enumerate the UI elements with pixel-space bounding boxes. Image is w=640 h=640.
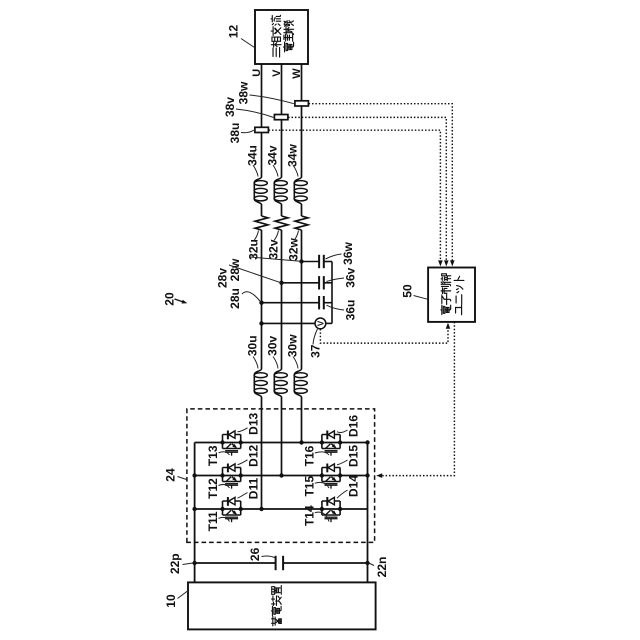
svg-text:D15: D15	[346, 445, 360, 467]
svg-text:T12: T12	[206, 478, 220, 499]
svg-text:10: 10	[164, 594, 178, 608]
svg-text:32v: 32v	[266, 239, 280, 259]
svg-text:T14: T14	[302, 505, 316, 526]
svg-text:28w: 28w	[228, 258, 242, 281]
svg-text:W: W	[291, 68, 303, 79]
svg-text:28u: 28u	[228, 288, 242, 309]
svg-text:D16: D16	[346, 415, 360, 437]
svg-text:22n: 22n	[375, 557, 389, 578]
svg-text:36w: 36w	[341, 241, 355, 264]
svg-text:38u: 38u	[228, 123, 242, 144]
svg-text:30u: 30u	[245, 335, 259, 356]
svg-text:32u: 32u	[246, 239, 260, 260]
svg-text:V: V	[316, 320, 325, 326]
svg-text:32w: 32w	[286, 237, 300, 260]
svg-text:D13: D13	[246, 412, 260, 434]
svg-text:24: 24	[164, 468, 178, 482]
svg-text:T16: T16	[302, 445, 316, 466]
svg-text:U: U	[251, 69, 263, 77]
svg-text:D14: D14	[346, 475, 360, 497]
svg-text:34w: 34w	[285, 143, 299, 166]
svg-text:36u: 36u	[344, 300, 358, 321]
svg-text:12: 12	[226, 25, 240, 39]
svg-text:V: V	[271, 69, 283, 77]
svg-text:37: 37	[308, 344, 322, 358]
svg-text:T15: T15	[302, 476, 316, 497]
svg-text:22p: 22p	[168, 553, 182, 574]
svg-text:36v: 36v	[344, 267, 358, 287]
svg-text:50: 50	[400, 284, 414, 298]
svg-text:D11: D11	[246, 478, 260, 500]
svg-text:38v: 38v	[223, 97, 237, 117]
svg-text:T11: T11	[206, 511, 220, 531]
svg-text:38w: 38w	[236, 81, 250, 104]
svg-text:26: 26	[248, 547, 262, 561]
svg-text:D12: D12	[246, 444, 260, 466]
svg-text:30v: 30v	[265, 335, 279, 355]
svg-text:20: 20	[162, 292, 176, 306]
svg-text:34u: 34u	[245, 145, 259, 166]
svg-text:T13: T13	[206, 445, 220, 466]
svg-text:34v: 34v	[265, 145, 279, 165]
svg-text:30w: 30w	[285, 334, 299, 357]
